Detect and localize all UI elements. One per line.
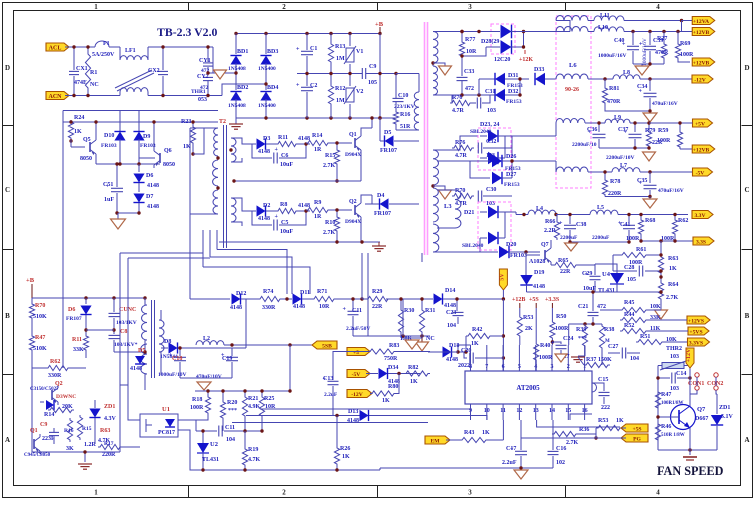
wire drive row2 emitter bus (219, 241, 380, 243)
capacitor CY1 (207, 47, 209, 62)
diode D5c (135, 356, 145, 364)
svg-text:FAN SPEED: FAN SPEED (657, 464, 724, 478)
svg-text:1N5400: 1N5400 (258, 103, 276, 109)
capacitor C8b (113, 330, 115, 334)
diode BD1 (235, 34, 237, 55)
wire into L6 (556, 21, 570, 32)
svg-text:4.7K: 4.7K (248, 457, 261, 463)
inductor L10 (594, 27, 624, 32)
resistor R25 (261, 391, 263, 395)
svg-text:R74: R74 (263, 289, 273, 295)
svg-text:1000uF/16V: 1000uF/16V (598, 53, 626, 59)
inductor LF1 bottom winding (119, 92, 121, 96)
ground earth R37 (571, 356, 585, 358)
svg-text:103/1KV: 103/1KV (116, 320, 137, 326)
label +12VB (692, 28, 715, 36)
svg-text:R65: R65 (558, 258, 568, 264)
svg-text:4: 4 (656, 489, 660, 497)
svg-text:THR1: THR1 (191, 89, 206, 95)
svg-text:3.3S: 3.3S (696, 239, 706, 245)
svg-text:33K: 33K (73, 347, 84, 353)
svg-text:+: + (275, 214, 279, 220)
svg-text:C27: C27 (608, 344, 618, 350)
svg-text:R66: R66 (545, 219, 555, 225)
IC bottom pin stubs (470, 404, 472, 420)
capacitor C6 (252, 144, 272, 158)
wire D19 bottom (527, 291, 596, 293)
resistor R15b (77, 415, 82, 440)
svg-text:4.9K: 4.9K (248, 404, 261, 410)
ground IC (514, 470, 528, 479)
resistor R21 (244, 391, 246, 395)
svg-text:150K: 150K (598, 357, 612, 363)
svg-text:10uF: 10uF (280, 162, 293, 168)
svg-text:4148: 4148 (446, 357, 458, 363)
inductor L8 (613, 75, 640, 79)
wire standby mid (86, 329, 114, 331)
svg-text:R69: R69 (680, 41, 690, 47)
svg-text:330R: 330R (48, 373, 62, 379)
diode D7b (133, 194, 144, 203)
svg-text:R21: R21 (248, 396, 258, 402)
svg-text:D12: D12 (236, 291, 246, 297)
svg-text:1000uF/10V: 1000uF/10V (158, 372, 186, 378)
svg-text:C5: C5 (281, 220, 288, 226)
resistor R16 (395, 102, 397, 110)
svg-text:BD3: BD3 (267, 49, 278, 55)
svg-text:3K: 3K (66, 446, 74, 452)
svg-text:220R: 220R (102, 452, 116, 458)
svg-text:1N5408: 1N5408 (228, 66, 246, 72)
svg-text:U1: U1 (162, 406, 170, 413)
svg-text:R52: R52 (624, 323, 634, 329)
inductor L6 winding4 (556, 118, 585, 123)
label +12VS (687, 316, 710, 324)
svg-text:C29: C29 (582, 271, 592, 277)
svg-text:D13: D13 (348, 409, 358, 415)
svg-text:+5S: +5S (529, 297, 539, 303)
svg-text:SBL2040: SBL2040 (462, 243, 484, 249)
inductor L6 winding5 (556, 167, 588, 172)
svg-text:TL431: TL431 (202, 457, 219, 463)
capacitor C13 (332, 355, 334, 380)
svg-text:C36: C36 (587, 127, 597, 133)
svg-text:C945/C8050: C945/C8050 (24, 453, 51, 458)
svg-text:L10: L10 (598, 25, 608, 31)
resistor R18 (207, 391, 209, 395)
svg-text:C28: C28 (624, 265, 634, 271)
resistor R23 (192, 122, 194, 125)
diode D24 (488, 152, 498, 164)
capacitor C1 (306, 34, 308, 51)
capacitor C35 (649, 172, 651, 183)
svg-text:D19: D19 (534, 270, 544, 276)
svg-text:R59: R59 (658, 128, 668, 134)
svg-text:3: 3 (468, 3, 472, 11)
label +12VB2 (692, 58, 715, 66)
svg-text:R38: R38 (604, 327, 614, 333)
optocoupler U1 box (140, 414, 178, 437)
resistor R46 (655, 422, 660, 442)
svg-text:105: 105 (627, 277, 636, 283)
svg-text:100R1/8W: 100R1/8W (661, 401, 684, 406)
svg-text:053: 053 (198, 97, 207, 103)
svg-text:750R: 750R (384, 356, 398, 362)
wire mid crossing horizontals (217, 250, 287, 295)
diode D34 (366, 373, 378, 375)
wire R77 top (448, 31, 480, 33)
resistor R70c (31, 298, 33, 302)
svg-text:C14: C14 (676, 371, 686, 377)
resistor R27 (663, 32, 665, 43)
svg-text:L4: L4 (536, 206, 543, 212)
ground 3.3 filter (565, 243, 578, 251)
wire pin10 bus (246, 416, 487, 421)
resistor R52 (620, 328, 648, 333)
svg-text:+12B: +12B (512, 297, 525, 303)
svg-text:C3150/C5027: C3150/C5027 (30, 387, 59, 392)
diode D2 (257, 205, 266, 216)
svg-text:R47: R47 (35, 335, 45, 341)
wire fan bottom (658, 449, 717, 451)
svg-text:D: D (5, 64, 10, 72)
svg-text:D31: D31 (508, 73, 518, 79)
svg-text:470R: 470R (655, 50, 669, 56)
T1 primary winding (142, 305, 147, 340)
svg-text:FR107: FR107 (374, 211, 391, 217)
svg-text:FR103: FR103 (510, 253, 527, 259)
wire clamp (379, 118, 381, 141)
transistor Q5 (89, 142, 91, 152)
resistor R76 (452, 145, 474, 150)
wire +B vertical (379, 34, 381, 119)
label +12VA (692, 17, 715, 25)
wire +12VB (624, 31, 693, 33)
svg-text:R64: R64 (668, 282, 678, 288)
svg-text:+5S: +5S (632, 426, 641, 432)
svg-text:+: + (559, 221, 563, 227)
svg-text:R81: R81 (609, 86, 619, 92)
svg-text:CX2: CX2 (148, 68, 160, 74)
svg-text:Q5: Q5 (83, 137, 91, 143)
svg-text:C23: C23 (446, 310, 456, 316)
label +5S flag (621, 424, 648, 432)
port ACN (46, 92, 69, 100)
svg-text:-12V: -12V (351, 392, 363, 398)
wire fb top bus (195, 390, 290, 392)
capacitor C51 (116, 164, 118, 187)
svg-text:R37: R37 (586, 357, 596, 363)
inductor L6 winding3 (556, 74, 588, 79)
svg-text:510K: 510K (33, 314, 47, 320)
inductor L6 winding1 (556, 16, 588, 21)
svg-text:103: 103 (670, 354, 679, 360)
wire standby top bus (32, 297, 145, 299)
capacitor C21 (592, 292, 594, 311)
resistor R53b (595, 428, 597, 438)
varistor V1 (349, 34, 351, 47)
wire U4 row (616, 284, 618, 292)
wire +12VA (624, 20, 682, 22)
zener ZD1 fan (716, 412, 718, 414)
zener ZD1b (89, 409, 100, 418)
diode D6c (85, 298, 87, 304)
wire Q collector feeds (371, 118, 373, 128)
ground +12 filter (633, 63, 664, 65)
svg-text:D: D (744, 64, 749, 72)
svg-text:D667: D667 (695, 416, 708, 422)
wire CY mid to ground (208, 72, 214, 74)
label +5 (347, 348, 370, 356)
svg-text:R8: R8 (280, 202, 287, 208)
diode D4 (380, 198, 389, 209)
svg-text:+12VA: +12VA (693, 19, 709, 25)
resistor R81 (604, 79, 606, 86)
diode BD2 (235, 73, 237, 90)
svg-text:F1: F1 (103, 41, 110, 47)
svg-text:A: A (5, 436, 10, 444)
ground R30 R31 (401, 337, 422, 339)
diode D23 (488, 130, 498, 142)
diode D27 (492, 172, 502, 184)
wire y299 row extension (386, 298, 433, 300)
IC AT2005 body (465, 371, 592, 404)
svg-text:2.2uF/50V: 2.2uF/50V (346, 326, 370, 332)
resistor R13 (330, 34, 332, 43)
svg-text:+5V: +5V (695, 121, 705, 127)
capacitor C28 (638, 266, 640, 277)
svg-text:A1028: A1028 (529, 259, 545, 265)
svg-text:C17: C17 (506, 446, 516, 452)
resistor R77 (461, 32, 463, 41)
svg-text:R29: R29 (372, 289, 382, 295)
diode D29 (501, 40, 512, 54)
wire mid bus (297, 73, 362, 75)
svg-text:R13: R13 (335, 44, 345, 50)
svg-text:R10: R10 (325, 220, 335, 226)
secondary center tap ground (433, 63, 445, 66)
svg-text:8050: 8050 (80, 156, 92, 162)
resistor R36 (552, 431, 578, 436)
resistor R68 (640, 215, 642, 219)
svg-text:FR107: FR107 (66, 316, 82, 322)
wire pin11 bus (502, 420, 504, 440)
connector CON1 (695, 373, 699, 377)
svg-text:103: 103 (670, 386, 679, 392)
svg-text:R16: R16 (64, 428, 74, 434)
svg-text:1N5408: 1N5408 (228, 103, 246, 109)
resistor R66 (556, 215, 558, 221)
svg-text:223/1KV: 223/1KV (394, 104, 415, 110)
resistor R69 (677, 32, 679, 43)
T2 right winding lower (231, 198, 236, 222)
wire mid crossing verticals (189, 247, 191, 299)
svg-text:BD2: BD2 (237, 85, 248, 91)
svg-text:SBL2040: SBL2040 (470, 129, 492, 135)
wire pin13-16 bus (537, 420, 620, 427)
resistor R70b (452, 193, 474, 198)
svg-text:V1: V1 (356, 49, 363, 55)
svg-text:10R: 10R (265, 404, 276, 410)
svg-text:51R: 51R (400, 124, 411, 130)
svg-text:4148: 4148 (533, 284, 545, 290)
svg-text:D21: D21 (464, 210, 474, 216)
capacitor CX1 (73, 47, 75, 70)
resistor R39 (582, 324, 587, 348)
svg-text:-5V: -5V (696, 170, 705, 176)
label 3.3S (693, 237, 714, 245)
transformer T3 secondary lower (433, 150, 438, 185)
resistor R43 (460, 437, 488, 442)
wire rail bus (353, 335, 430, 337)
label -5V (693, 168, 713, 176)
resistor R50 (551, 308, 553, 320)
svg-text:R9: R9 (314, 200, 321, 206)
capacitor C29 (594, 264, 596, 275)
diode D26 (437, 160, 490, 162)
svg-text:2200uF/10V: 2200uF/10V (606, 155, 634, 161)
svg-text:C32: C32 (486, 139, 496, 145)
svg-text:+12V: +12V (686, 348, 692, 362)
inductor L11 (594, 16, 624, 21)
svg-text:D32: D32 (508, 89, 518, 95)
capacitor C17 (520, 420, 522, 450)
wire 3.3 gnd (571, 241, 629, 243)
svg-text:472: 472 (465, 86, 474, 92)
transformer T2 core (223, 125, 225, 248)
svg-text:L2: L2 (203, 336, 210, 342)
svg-text:R36: R36 (579, 427, 589, 433)
resistor R83 (368, 349, 396, 354)
resistor R38 (599, 324, 604, 350)
resistor R19 (244, 431, 246, 447)
resistor R14b (48, 407, 74, 412)
resistor R59 (679, 123, 681, 130)
svg-text:D9: D9 (143, 134, 150, 140)
svg-text:R61: R61 (636, 247, 646, 253)
svg-text:2.7K: 2.7K (323, 230, 336, 236)
resistor R9 (306, 207, 330, 212)
svg-text:B: B (745, 312, 750, 320)
shunt reg U2 TL431 (197, 443, 209, 453)
resistor R40 (535, 308, 537, 342)
svg-text:C37: C37 (618, 127, 628, 133)
wire 5SB down (289, 345, 291, 391)
diode BD3 (265, 34, 267, 55)
wire drive mid (96, 163, 160, 165)
svg-text:1K: 1K (482, 430, 490, 436)
svg-text:1000uF/16V: 1000uF/16V (642, 38, 648, 66)
svg-text:R39: R39 (576, 327, 586, 333)
capacitor C14 (658, 377, 670, 379)
svg-text:+B: +B (26, 277, 35, 284)
svg-text:TB-2.3 V2.0: TB-2.3 V2.0 (157, 25, 218, 39)
capacitor C40 (632, 32, 634, 46)
svg-text:1: 1 (94, 489, 98, 497)
svg-text:10R: 10R (319, 304, 330, 310)
svg-text:222: 222 (601, 405, 610, 411)
diode D32 (495, 89, 505, 101)
earth ground drive bus (372, 245, 386, 247)
svg-text:+12VS: +12VS (688, 318, 704, 324)
svg-text:R20: R20 (227, 400, 237, 406)
svg-text:R11: R11 (72, 337, 82, 343)
svg-text:104: 104 (226, 437, 235, 443)
svg-text:+B: +B (375, 21, 384, 28)
capacitor C38 (569, 215, 571, 225)
svg-text:R17: R17 (104, 441, 114, 447)
svg-text:LF1: LF1 (125, 48, 136, 54)
transistor Q2 (354, 205, 356, 215)
dual diode D23/24 box (478, 128, 511, 170)
svg-text:V2: V2 (356, 89, 363, 95)
T1 secondary winding (159, 320, 164, 352)
capacitor C34 (649, 79, 651, 91)
capacitor C33 (461, 64, 463, 76)
svg-text:R25: R25 (264, 396, 274, 402)
dual diode D28/29 box (491, 24, 515, 54)
svg-text:CX1: CX1 (76, 66, 88, 72)
svg-text:D26: D26 (506, 154, 516, 160)
svg-text:1M: 1M (336, 98, 345, 104)
wire U2 (202, 431, 204, 443)
svg-text:8050: 8050 (163, 162, 175, 168)
capacitor C24 (551, 340, 554, 343)
svg-text:12C20: 12C20 (494, 57, 510, 63)
diode D5 (385, 135, 394, 146)
svg-text:1R: 1R (314, 214, 322, 220)
svg-text:470uF/16V: 470uF/16V (658, 188, 684, 194)
resistor R37 (584, 348, 586, 356)
svg-text:PG: PG (633, 436, 641, 442)
capacitor CX2 (162, 47, 164, 70)
svg-text:R83: R83 (389, 343, 399, 349)
svg-text:+5: +5 (353, 350, 359, 356)
label +5VS (688, 327, 709, 335)
svg-text:C51: C51 (103, 182, 113, 188)
diode D21 (488, 206, 498, 218)
wire fan mid (689, 372, 691, 394)
svg-text:C9: C9 (369, 64, 376, 70)
svg-text:B: B (5, 312, 10, 320)
diode D6b (138, 164, 140, 172)
capacitor CUNC (113, 298, 115, 312)
svg-text:2200uF: 2200uF (560, 235, 578, 241)
wire AC bottom to bridge (222, 84, 266, 96)
svg-text:C38: C38 (576, 222, 586, 228)
wire feedback net (32, 368, 120, 452)
inductor L9 (605, 119, 630, 123)
resistor R12 (330, 74, 332, 85)
capacitor C11 (352, 299, 354, 310)
wire pin9 bus (260, 409, 471, 420)
resistor R61b (620, 252, 648, 257)
svg-text:3.3V: 3.3V (694, 213, 705, 219)
svg-text:5V: 5V (499, 273, 505, 281)
wire -12V (640, 78, 693, 80)
svg-text:A: A (744, 436, 749, 444)
svg-text:R42: R42 (472, 327, 482, 333)
svg-text:EM: EM (430, 438, 440, 444)
svg-text:R68: R68 (645, 218, 655, 224)
resistor R47 (31, 320, 33, 334)
optocoupler U1 internals (145, 419, 147, 432)
svg-text:5.1V: 5.1V (721, 414, 734, 420)
svg-text:T2: T2 (219, 119, 226, 125)
resistor R44 (620, 317, 648, 322)
svg-text:R47: R47 (661, 392, 671, 398)
svg-text:C9: C9 (40, 422, 47, 428)
